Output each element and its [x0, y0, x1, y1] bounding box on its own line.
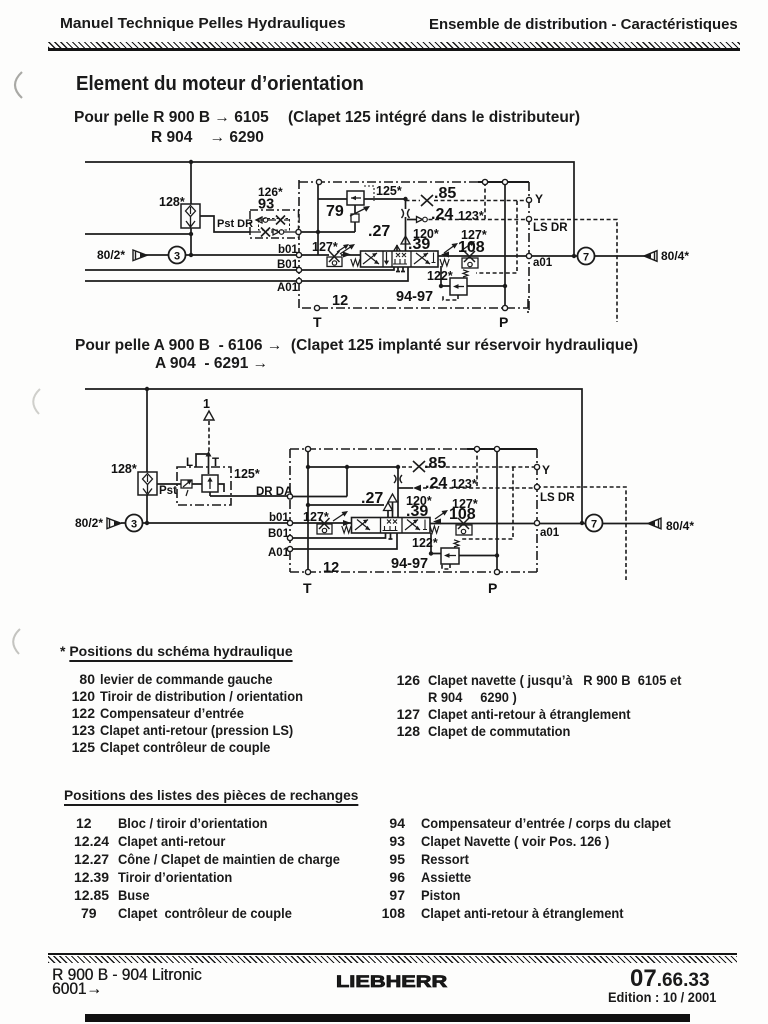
- wire dashed pump: [208, 421, 210, 455]
- junction: [145, 387, 149, 391]
- header zigzag band: [48, 42, 740, 49]
- wire dashed X drop: [484, 182, 486, 219]
- SCHEMATIC 2 SVG: [0, 378, 768, 600]
- svg-text:.24: .24: [425, 475, 447, 492]
- svg-text:Y: Y: [542, 463, 550, 477]
- valve 128 box: [138, 472, 157, 495]
- svg-text:LS DR: LS DR: [533, 222, 568, 234]
- pilot diag left: [333, 513, 345, 521]
- svg-text:7: 7: [583, 252, 589, 264]
- valve 108 right: [461, 241, 478, 268]
- svg-text:80/4*: 80/4*: [661, 249, 689, 263]
- node a01: [534, 520, 539, 525]
- block border dash-dot box: [290, 449, 537, 572]
- check valve up 1: [384, 503, 393, 511]
- subtitle 1 line 1: [74, 109, 269, 127]
- wire DR inside: [290, 496, 347, 498]
- svg-text:.27: .27: [368, 223, 390, 240]
- header right title: [429, 17, 738, 33]
- SCHEMATIC 1 SVG: [0, 150, 768, 335]
- node P: [502, 305, 507, 310]
- pilot arrow left: [343, 252, 351, 258]
- wire T stubs: [396, 267, 405, 272]
- svg-text:LS DR: LS DR: [540, 492, 575, 504]
- junction: [189, 253, 193, 257]
- valve 79 box: [347, 186, 374, 222]
- valve .24 check: [417, 217, 423, 223]
- block border solid segment: [478, 181, 529, 183]
- node P port top: [482, 179, 487, 184]
- bottom scan bar: [85, 1014, 690, 1022]
- svg-text:.24: .24: [431, 206, 453, 223]
- spool block: [361, 251, 439, 267]
- wire a01 line: [438, 255, 645, 257]
- list 2 left column: [0, 0, 768, 1]
- pilot arrow left: [343, 520, 351, 526]
- node P: [494, 569, 499, 574]
- junction: [345, 465, 349, 469]
- wire dashed Y line: [406, 200, 530, 202]
- wire dashed comp drain: [443, 294, 458, 300]
- wire Pst DR: [199, 216, 250, 232]
- valve 125 border: [177, 467, 231, 505]
- wire 79 drain: [354, 205, 356, 232]
- node Pst DR port: [296, 229, 301, 234]
- node A01: [296, 278, 301, 283]
- node top port 3: [494, 446, 499, 451]
- junction: [495, 553, 499, 557]
- pilot diag left: [340, 246, 352, 254]
- edition: [608, 990, 716, 1005]
- header left title: [60, 15, 346, 32]
- node A01: [287, 546, 292, 551]
- wire comp out: [459, 555, 497, 557]
- svg-text:.85: .85: [434, 185, 456, 202]
- wire top line: [85, 389, 582, 523]
- wire dashed comp drain: [442, 563, 450, 569]
- svg-text:A01: A01: [268, 547, 290, 559]
- arrow 80/2: [107, 518, 121, 529]
- node top port 1: [305, 446, 310, 451]
- valve 127 left: [317, 518, 332, 534]
- wire compensator out: [467, 285, 505, 287]
- wire P line: [504, 182, 506, 308]
- svg-text:128*: 128*: [111, 462, 137, 476]
- svg-text:.85: .85: [424, 455, 446, 472]
- svg-text:a01: a01: [533, 257, 553, 269]
- wire to 79: [318, 198, 406, 200]
- junction: [316, 230, 320, 234]
- spring left: [342, 526, 351, 533]
- svg-text:.39: .39: [408, 236, 430, 253]
- junction: [503, 284, 507, 288]
- junction: [396, 465, 400, 469]
- svg-text:125*: 125*: [234, 467, 260, 481]
- valve 125 torque controller: [181, 475, 218, 496]
- arrow 80/4: [648, 518, 661, 529]
- node B01: [287, 535, 292, 540]
- svg-text:3: 3: [174, 251, 180, 263]
- svg-text:122*: 122*: [427, 269, 453, 283]
- junction: [580, 521, 584, 525]
- junction: [572, 254, 576, 258]
- svg-text:T: T: [313, 314, 322, 330]
- subtitle 2 line 2: [155, 355, 268, 373]
- valve 128 box: [181, 204, 200, 228]
- svg-text:T: T: [212, 457, 219, 469]
- block border dash-dot box: [299, 180, 529, 313]
- subtitle 1 line 2: [151, 129, 264, 147]
- wire b01 line: [121, 522, 290, 524]
- svg-text:b01: b01: [269, 512, 289, 524]
- list 2 heading: [64, 787, 358, 803]
- svg-text:Pst DR: Pst DR: [217, 218, 253, 230]
- svg-text:12: 12: [323, 560, 339, 576]
- list 1 right column: [0, 0, 768, 1]
- valve 122 compensator: [441, 540, 459, 564]
- wire a01 line: [430, 523, 649, 525]
- svg-text:DR DA: DR DA: [256, 486, 292, 498]
- junction: [429, 551, 433, 555]
- valve 122 compensator: [450, 270, 468, 295]
- subtitle 2 line 1: [75, 337, 638, 355]
- wire comp feed: [431, 533, 441, 554]
- wire A01 into block: [299, 267, 408, 281]
- wire check stubs: [388, 467, 398, 518]
- node B01: [296, 267, 301, 272]
- wire Pst: [156, 483, 202, 485]
- node X port top: [316, 179, 321, 184]
- svg-text:7: 7: [591, 519, 597, 531]
- junction: [439, 284, 443, 288]
- list 1 heading: [60, 643, 293, 659]
- node LS DR: [526, 216, 531, 221]
- scan artifact arcs: [0, 0, 60, 1024]
- spool block: [352, 518, 431, 534]
- node T port top: [502, 179, 507, 184]
- svg-text:b01: b01: [278, 244, 298, 256]
- wire .24 stub: [398, 487, 413, 489]
- junction: [403, 197, 407, 201]
- svg-text:P: P: [488, 580, 497, 596]
- list 2 right column: [0, 0, 768, 1]
- wire dashed spring sense: [460, 467, 513, 539]
- svg-text:94-97: 94-97: [391, 556, 428, 572]
- node Y: [534, 464, 539, 469]
- svg-text:3: 3: [131, 519, 137, 531]
- pilot diag right: [444, 245, 455, 253]
- svg-text:80/4*: 80/4*: [666, 519, 694, 533]
- node b01: [296, 252, 301, 257]
- valve .85 cross: [421, 195, 433, 206]
- wire valve ports: [196, 454, 209, 474]
- svg-text:a01: a01: [540, 527, 560, 539]
- svg-text:80/2*: 80/2*: [97, 248, 125, 262]
- node b01: [287, 520, 292, 525]
- svg-text:.39: .39: [406, 503, 428, 520]
- svg-text:.27: .27: [361, 490, 383, 507]
- junction: [145, 521, 149, 525]
- wire b01 entry: [290, 522, 351, 524]
- svg-text:122*: 122*: [412, 536, 438, 550]
- svg-text:123*: 123*: [451, 477, 477, 491]
- check valve up: [401, 236, 410, 244]
- svg-text:79: 79: [326, 203, 344, 220]
- svg-text:94-97: 94-97: [396, 289, 433, 305]
- svg-text:108: 108: [449, 506, 476, 523]
- wire 128 drop: [190, 162, 192, 255]
- junction: [306, 503, 310, 507]
- wire dashed LS sense: [423, 487, 537, 489]
- wire top line: [85, 162, 574, 256]
- valve 93 box: [250, 210, 299, 238]
- wire check stub: [396, 245, 398, 251]
- wire B01 into block: [290, 533, 386, 538]
- junction: [306, 465, 310, 469]
- pilot diag right: [435, 512, 445, 519]
- footer zigzag: [48, 956, 737, 963]
- header rule: [48, 48, 740, 50]
- pilot arrow right: [433, 519, 441, 525]
- list 1 left column: [0, 0, 768, 1]
- wire restrictor branch: [405, 199, 407, 251]
- LIEBHERR logo: [336, 972, 447, 992]
- wire A01 into block: [290, 533, 397, 549]
- svg-text:12: 12: [332, 293, 348, 309]
- footer model: [52, 965, 202, 985]
- gauge circle 7: [586, 515, 603, 532]
- svg-text:127*: 127*: [312, 240, 338, 254]
- svg-text:L: L: [186, 457, 193, 469]
- wire x347: [346, 467, 348, 497]
- pilot arrow right: [441, 252, 449, 258]
- wire dashed X drop: [476, 449, 478, 488]
- wire DR DA: [210, 491, 290, 496]
- block border solid segment: [467, 448, 537, 450]
- svg-text:128*: 128*: [159, 195, 185, 209]
- svg-text:B01: B01: [268, 528, 290, 540]
- wire pilot inside: [298, 231, 355, 233]
- svg-text:T: T: [303, 580, 312, 596]
- gauge circle 3: [126, 515, 143, 532]
- svg-text:125*: 125*: [376, 184, 402, 198]
- check to pump 1: [204, 411, 214, 420]
- junction: [189, 160, 193, 164]
- wire dashed LS DR out: [534, 220, 617, 323]
- wire .24 branch: [407, 219, 416, 221]
- svg-text:123*: 123*: [458, 209, 484, 223]
- wire supply vertical: [307, 449, 309, 572]
- wire valve hook: [218, 484, 224, 492]
- svg-text:127*: 127*: [303, 510, 329, 524]
- check valve up 2: [388, 494, 397, 502]
- valve 108 right: [456, 518, 472, 535]
- valve 127 left: [327, 244, 349, 267]
- svg-text:A01: A01: [277, 282, 299, 294]
- svg-text:93: 93: [258, 197, 274, 213]
- wire T stubs: [389, 533, 393, 539]
- node LS DR: [534, 484, 539, 489]
- footer rule: [48, 953, 737, 955]
- wire dashed spring sense: [476, 201, 517, 273]
- wire B01 into block: [299, 267, 394, 270]
- wire b01 line: [146, 254, 299, 256]
- valve .85 cross: [413, 461, 425, 472]
- valve .24 arrow: [413, 485, 421, 492]
- doc number: [630, 965, 710, 993]
- spring left: [351, 259, 360, 266]
- gauge circle 7: [578, 248, 595, 265]
- wire dashed LS sense: [429, 219, 530, 221]
- arrowhead T line: [206, 451, 212, 457]
- wire P line: [496, 449, 498, 572]
- svg-text:Y: Y: [535, 192, 543, 206]
- svg-text:80/2*: 80/2*: [75, 516, 103, 530]
- wire 128 drop: [146, 389, 148, 523]
- wire P supply vertical: [317, 182, 319, 255]
- wire compensator feed: [441, 266, 450, 286]
- check valve up 2: [393, 246, 402, 254]
- node T: [314, 305, 319, 310]
- page title: [76, 73, 364, 96]
- svg-text:P: P: [499, 314, 508, 330]
- wire b01 entry: [299, 254, 360, 256]
- wire dashed LS DR out: [537, 487, 626, 580]
- svg-text:B01: B01: [277, 259, 299, 271]
- node a01: [526, 253, 531, 258]
- wire A01 line: [85, 280, 299, 282]
- svg-text:1: 1: [203, 397, 210, 411]
- junction: [189, 232, 193, 236]
- node Y: [526, 197, 531, 202]
- arrow 80/4: [644, 251, 657, 262]
- restrictor: [402, 209, 410, 218]
- wire dashed Y line: [402, 466, 537, 468]
- gauge circle 3: [169, 247, 186, 264]
- wire y467: [308, 466, 398, 468]
- node top port 2: [474, 446, 479, 451]
- wire y504: [308, 504, 384, 506]
- svg-text:Pst: Pst: [159, 485, 177, 497]
- spring right: [440, 259, 449, 266]
- spring right: [430, 526, 439, 533]
- node DR DA: [287, 494, 292, 499]
- arrow 80/2: [133, 250, 147, 261]
- wire mid line: [85, 233, 191, 235]
- restrictor: [394, 475, 402, 483]
- svg-text:108: 108: [458, 239, 485, 256]
- wire B01 line: [85, 269, 299, 271]
- node T: [305, 569, 310, 574]
